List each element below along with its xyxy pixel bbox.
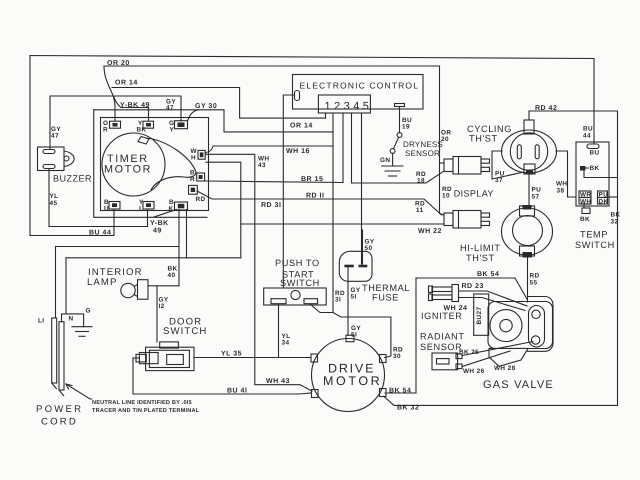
- svg-text:10: 10: [442, 193, 450, 200]
- svg-text:BK: BK: [137, 127, 147, 134]
- svg-text:DRYNESS: DRYNESS: [403, 140, 443, 149]
- svg-text:45: 45: [50, 200, 58, 207]
- svg-text:G: G: [86, 308, 91, 315]
- svg-text:RD 3I: RD 3I: [261, 202, 281, 209]
- svg-text:BK 54: BK 54: [389, 388, 411, 395]
- svg-text:TEMP: TEMP: [580, 230, 608, 240]
- svg-text:47: 47: [51, 133, 59, 140]
- svg-text:WH 22: WH 22: [418, 228, 442, 235]
- svg-text:Y-BK: Y-BK: [150, 220, 169, 227]
- svg-text:BK 32: BK 32: [397, 405, 419, 412]
- svg-text:Y: Y: [170, 127, 175, 134]
- svg-text:OR 14: OR 14: [115, 80, 138, 87]
- svg-text:RD: RD: [196, 196, 206, 203]
- svg-text:GY 30: GY 30: [195, 103, 217, 110]
- svg-text:GAS VALVE: GAS VALVE: [483, 379, 554, 391]
- svg-text:POWER: POWER: [36, 404, 83, 415]
- svg-text:TH'ST: TH'ST: [466, 253, 495, 263]
- svg-text:FUSE: FUSE: [372, 293, 399, 303]
- svg-text:OR 14: OR 14: [290, 123, 313, 130]
- svg-text:WR: WR: [580, 192, 591, 199]
- svg-text:WH 43: WH 43: [266, 378, 290, 385]
- svg-text:CORD: CORD: [41, 417, 78, 428]
- svg-text:RD 42: RD 42: [535, 105, 557, 112]
- svg-text:WH 28: WH 28: [494, 365, 516, 372]
- svg-text:55: 55: [530, 280, 538, 287]
- svg-text:CYCLING: CYCLING: [467, 124, 512, 134]
- svg-text:BK: BK: [611, 212, 621, 219]
- svg-text:11: 11: [416, 207, 424, 214]
- svg-text:YL: YL: [50, 193, 59, 200]
- svg-text:SENSOR: SENSOR: [420, 342, 462, 352]
- svg-text:WH 24: WH 24: [444, 305, 468, 312]
- svg-text:I2: I2: [159, 303, 165, 310]
- svg-text:BU 4I: BU 4I: [227, 388, 247, 395]
- svg-text:BU27: BU27: [476, 307, 483, 325]
- svg-text:19: 19: [402, 124, 410, 131]
- svg-text:N: N: [69, 316, 74, 323]
- svg-text:18: 18: [417, 178, 425, 185]
- svg-text:TH'ST: TH'ST: [469, 134, 498, 144]
- svg-text:BK 25: BK 25: [459, 349, 479, 356]
- svg-text:RD 23: RD 23: [462, 283, 484, 290]
- svg-text:SENSOR: SENSOR: [405, 149, 440, 158]
- svg-text:5I: 5I: [351, 294, 357, 301]
- svg-text:BUZZER: BUZZER: [53, 174, 92, 184]
- svg-text:TRACER AND TIN PLATED TERMINAL: TRACER AND TIN PLATED TERMINAL: [92, 408, 200, 414]
- svg-text:40: 40: [168, 272, 176, 279]
- svg-text:BU: BU: [583, 126, 593, 133]
- svg-text:GN: GN: [380, 157, 390, 164]
- svg-text:PUSH TO: PUSH TO: [275, 258, 320, 268]
- svg-text:R: R: [103, 127, 108, 134]
- svg-text:BR 15: BR 15: [301, 176, 323, 183]
- svg-text:43: 43: [258, 162, 266, 169]
- svg-text:WH: WH: [580, 199, 591, 206]
- svg-text:37: 37: [495, 177, 503, 184]
- svg-text:34: 34: [282, 340, 290, 347]
- svg-text:THERMAL: THERMAL: [362, 283, 410, 293]
- svg-text:U: U: [104, 206, 109, 213]
- svg-text:MOTOR: MOTOR: [323, 374, 382, 388]
- svg-text:47: 47: [166, 105, 174, 112]
- svg-text:RD II: RD II: [306, 193, 324, 200]
- svg-text:5I: 5I: [351, 332, 357, 339]
- svg-text:BU: BU: [590, 150, 600, 157]
- svg-text:BU 44: BU 44: [89, 230, 111, 237]
- svg-text:20: 20: [441, 136, 449, 143]
- svg-text:WH 26: WH 26: [463, 368, 485, 375]
- svg-text:38: 38: [557, 188, 565, 195]
- svg-text:SWITCH: SWITCH: [280, 278, 320, 288]
- svg-text:SWITCH: SWITCH: [575, 240, 615, 250]
- svg-text:YL 35: YL 35: [221, 351, 242, 358]
- svg-text:HI-LIMIT: HI-LIMIT: [460, 243, 501, 253]
- svg-text:DISPLAY: DISPLAY: [454, 189, 494, 199]
- svg-text:NEUTRAL LINE IDENTIFIED BY .0I: NEUTRAL LINE IDENTIFIED BY .0I5: [92, 400, 192, 406]
- svg-text:1 2 3 4 5: 1 2 3 4 5: [325, 101, 370, 113]
- svg-text:BK: BK: [590, 165, 600, 172]
- svg-text:K: K: [169, 206, 174, 213]
- svg-text:PU: PU: [532, 187, 542, 194]
- svg-text:LAMP: LAMP: [87, 277, 118, 288]
- svg-text:3I: 3I: [335, 297, 341, 304]
- svg-text:L: L: [139, 206, 143, 213]
- svg-text:IGNITER: IGNITER: [421, 311, 462, 321]
- svg-text:WH: WH: [556, 181, 567, 188]
- svg-text:DK: DK: [599, 199, 609, 206]
- svg-text:57: 57: [532, 194, 540, 201]
- svg-text:30: 30: [393, 353, 401, 360]
- svg-text:OR 20: OR 20: [107, 60, 130, 67]
- svg-text:LI: LI: [38, 318, 44, 325]
- svg-text:ELECTRONIC CONTROL: ELECTRONIC CONTROL: [300, 81, 420, 91]
- svg-text:BK: BK: [580, 216, 590, 223]
- svg-text:49: 49: [153, 228, 162, 235]
- svg-text:MOTOR: MOTOR: [104, 164, 152, 176]
- svg-text:Y-BK 49: Y-BK 49: [120, 102, 150, 109]
- svg-text:PU: PU: [599, 192, 609, 199]
- svg-text:44: 44: [583, 133, 591, 140]
- svg-text:32: 32: [611, 219, 619, 226]
- svg-text:WH 16: WH 16: [286, 148, 310, 155]
- svg-text:BK 54: BK 54: [477, 271, 499, 278]
- svg-text:R: R: [190, 176, 195, 183]
- svg-text:RADIANT: RADIANT: [420, 332, 465, 342]
- svg-text:H: H: [191, 155, 196, 162]
- svg-text:50: 50: [365, 245, 373, 252]
- svg-text:SWITCH: SWITCH: [163, 326, 207, 337]
- svg-text:RD: RD: [530, 273, 540, 280]
